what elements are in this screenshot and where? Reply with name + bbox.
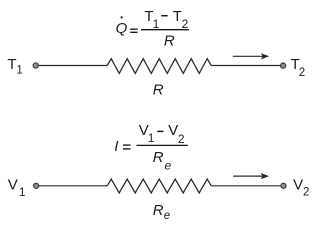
label V2: [293, 176, 309, 198]
formula fraction bar (top equation): [141, 29, 189, 31]
svg-text:e: e: [165, 159, 172, 173]
svg-text:V: V: [293, 176, 303, 193]
svg-text:e: e: [164, 210, 170, 222]
formula numerator V1 minus V2 (bottom equation): [139, 122, 185, 146]
formula numerator T1 minus T2 (top equation): [144, 8, 188, 31]
resistor R zigzag: [107, 59, 211, 74]
svg-text:2: 2: [178, 132, 185, 146]
node T2 terminal dot: [281, 63, 286, 68]
svg-text:Q: Q: [116, 20, 128, 37]
wire resistor Re to V2: [211, 185, 280, 187]
formula equals sign (bottom equation): [123, 145, 131, 149]
node V1 terminal dot: [34, 183, 39, 188]
svg-text:V: V: [168, 122, 178, 139]
wire T1 to resistor R: [39, 65, 108, 67]
formula denominator Re (bottom equation): [153, 149, 172, 173]
svg-text:V: V: [8, 176, 18, 193]
formula Q-dot term (top equation): [116, 16, 128, 37]
formula equals sign (top equation): [130, 29, 137, 32]
svg-text:R: R: [153, 82, 164, 99]
value label Re below resistor: [153, 202, 171, 222]
svg-text:1: 1: [148, 131, 155, 145]
node V2 terminal dot: [281, 183, 286, 188]
svg-text:1: 1: [19, 187, 25, 199]
svg-text:T: T: [7, 56, 16, 73]
svg-text:R: R: [153, 149, 164, 166]
svg-text:1: 1: [16, 65, 22, 77]
svg-text:I: I: [114, 138, 118, 155]
svg-text:2: 2: [299, 67, 305, 79]
current flow arrow I (bottom): [233, 173, 269, 179]
svg-text:R: R: [153, 202, 164, 219]
label T1: [7, 56, 22, 77]
svg-text:2: 2: [303, 187, 309, 199]
label V1: [8, 176, 26, 199]
heat flow arrow (top): [233, 53, 269, 59]
svg-text:R: R: [164, 33, 175, 50]
wire resistor R to T2: [211, 65, 280, 67]
node T1 terminal dot: [33, 63, 38, 68]
wire V1 to resistor Re: [39, 185, 107, 187]
formula fraction bar (bottom equation): [137, 144, 188, 146]
resistor Re zigzag: [107, 179, 211, 193]
label T2: [291, 56, 306, 79]
svg-text:T: T: [173, 8, 182, 25]
